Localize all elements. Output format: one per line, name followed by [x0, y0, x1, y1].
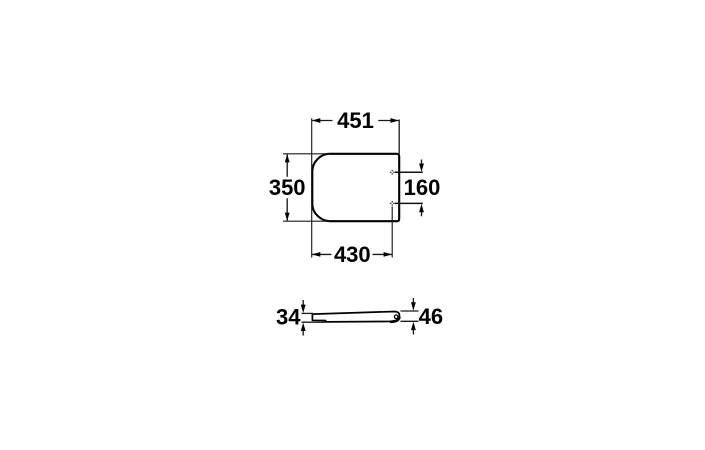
wire: 350 top extension line	[283, 153, 330, 155]
svg-text:430: 430	[334, 242, 371, 267]
seat side-view profile	[312, 312, 399, 322]
wire: 430 right extension line	[391, 207, 393, 258]
dimension 350	[269, 154, 306, 221]
wire: 34 bottom extension line	[302, 321, 327, 323]
dimension 46	[411, 298, 443, 335]
dimension 34	[276, 300, 306, 336]
wire: right extension line (451)	[398, 120, 400, 154]
hinge pin circle on side view	[394, 315, 398, 319]
cap shading on side view right end	[390, 317, 399, 322]
seat top-view outline	[312, 154, 399, 221]
dimension 451	[312, 108, 399, 133]
hinge centermark top	[390, 170, 395, 175]
wire: hinge line bottom	[395, 202, 423, 204]
svg-text:160: 160	[404, 175, 441, 200]
wire: hinge line top	[395, 171, 423, 173]
hinge centermark bottom	[390, 201, 395, 206]
dimension 160	[404, 160, 441, 217]
wire: left shared extension line (451/430)	[311, 118, 313, 257]
svg-text:46: 46	[419, 304, 443, 329]
dimension 430	[312, 242, 392, 267]
svg-text:34: 34	[276, 305, 301, 330]
wire: 46 top extension line	[401, 310, 419, 312]
wire: 350 bottom extension line	[283, 220, 330, 222]
svg-text:350: 350	[269, 175, 306, 200]
wire: 34 top extension line	[302, 312, 314, 314]
wire: 46 bottom extension line	[401, 320, 419, 322]
svg-text:451: 451	[337, 108, 374, 133]
